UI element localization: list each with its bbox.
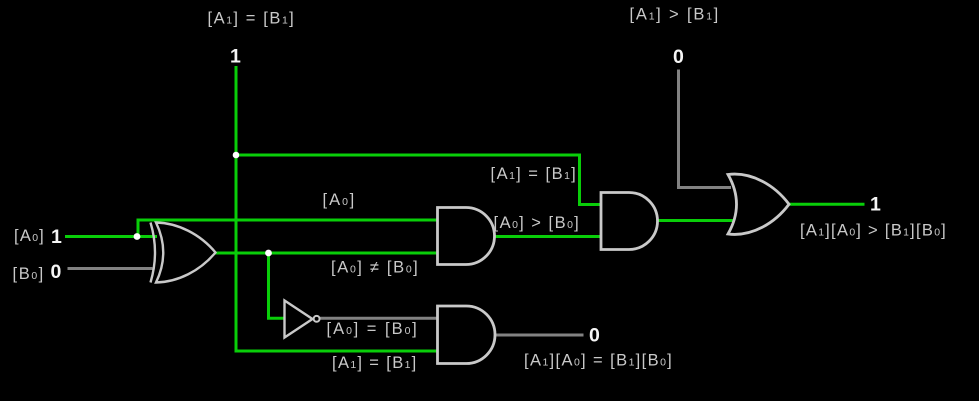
wire branch down to NOT input [269, 253, 286, 318]
junction node on 1-source wire [233, 152, 240, 159]
wire AND3 output to 0 probe (gray) [495, 334, 584, 337]
svg-text:1: 1 [870, 193, 881, 215]
wire 1-source vertical down and right to AND3 bottom input [A1]=[B1] [236, 66, 438, 351]
junction node on A0 wire [134, 233, 141, 240]
svg-text:0: 0 [589, 325, 600, 347]
xor gate U1 back arc [151, 223, 156, 283]
and gate U2 [A0]>[B0] [438, 208, 495, 265]
svg-text:0: 0 [673, 46, 684, 68]
wire AND1 output to AND2 bottom input [A0]>[B0] [494, 235, 602, 238]
wire A0 input stub to XOR input (green) [65, 235, 157, 238]
svg-text:1: 1 [230, 46, 241, 68]
junction node on XOR output wire [265, 250, 272, 257]
xor gate U1 body [156, 223, 216, 283]
wire branch at junction to AND2 top input [A1]=[B1] [236, 155, 602, 205]
wire junction up and right to AND1 top input [A0] [138, 220, 438, 237]
svg-text:0: 0 [51, 261, 62, 283]
wire OR output to 1 probe [790, 203, 865, 206]
wire XOR output to AND1 bottom input [A0]!=[B0] [214, 252, 438, 255]
wire NOT output to AND3 top input (gray) [320, 317, 438, 320]
svg-text:1: 1 [51, 226, 62, 248]
svg-text:[A0]: [A0] [14, 227, 44, 245]
or gate U4 [728, 174, 789, 234]
and gate U3 [601, 193, 658, 250]
wire 0-source down and right to OR top input (gray) [679, 70, 732, 188]
and gate U6 [A1][A0]=[B1][B0] [438, 306, 495, 364]
not gate U5 bubble [314, 316, 320, 322]
wire B0 input stub to XOR input (gray) [68, 267, 153, 270]
wire AND2 output to OR bottom input [657, 219, 734, 222]
not gate U5 triangle [285, 301, 313, 338]
svg-text:[B0]: [B0] [13, 265, 44, 283]
svg-text:[A0]: [A0] [323, 191, 355, 209]
